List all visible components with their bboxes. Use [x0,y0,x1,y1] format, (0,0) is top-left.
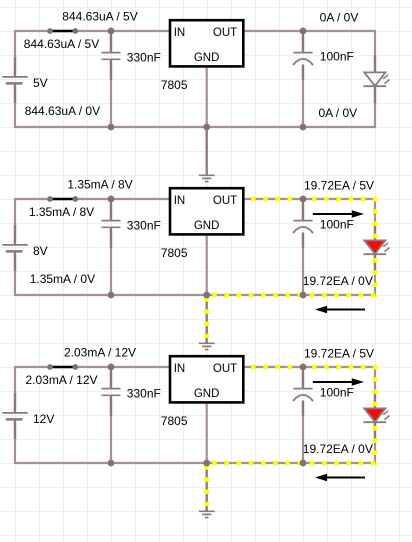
svg-text:7805: 7805 [161,414,188,428]
svg-text:330nF: 330nF [127,386,161,400]
svg-text:2.03mA / 12V: 2.03mA / 12V [25,373,97,387]
svg-text:19.72EA / 5V: 19.72EA / 5V [304,347,374,361]
svg-text:1.35mA / 0V: 1.35mA / 0V [30,272,95,286]
svg-text:1.35mA / 8V: 1.35mA / 8V [67,177,132,191]
svg-text:844.63uA / 5V: 844.63uA / 5V [24,37,99,51]
svg-text:GND: GND [194,52,220,64]
svg-text:0A / 0V: 0A / 0V [318,106,357,120]
svg-text:844.63uA / 0V: 844.63uA / 0V [25,104,100,118]
svg-text:330nF: 330nF [127,50,161,64]
svg-text:0A / 0V: 0A / 0V [320,11,359,25]
svg-text:19.72EA / 0V: 19.72EA / 0V [303,274,373,288]
svg-text:5V: 5V [33,76,48,90]
svg-text:100nF: 100nF [320,218,354,232]
svg-text:IN: IN [174,195,186,207]
svg-text:1.35mA / 8V: 1.35mA / 8V [29,205,94,219]
svg-text:OUT: OUT [213,27,237,39]
svg-text:IN: IN [174,27,186,39]
svg-text:7805: 7805 [161,78,188,92]
svg-text:12V: 12V [33,412,54,426]
svg-text:OUT: OUT [213,195,237,207]
svg-text:100nF: 100nF [320,50,354,64]
svg-text:19.72EA / 0V: 19.72EA / 0V [303,442,373,456]
svg-text:OUT: OUT [213,363,237,375]
svg-text:844.63uA / 5V: 844.63uA / 5V [62,9,137,23]
svg-text:2.03mA / 12V: 2.03mA / 12V [64,345,136,359]
svg-text:19.72EA / 5V: 19.72EA / 5V [304,179,374,193]
svg-text:GND: GND [194,388,220,400]
svg-text:IN: IN [174,363,186,375]
svg-text:8V: 8V [33,244,48,258]
svg-text:100nF: 100nF [320,386,354,400]
svg-text:GND: GND [194,220,220,232]
svg-text:7805: 7805 [161,246,188,260]
svg-text:330nF: 330nF [127,218,161,232]
